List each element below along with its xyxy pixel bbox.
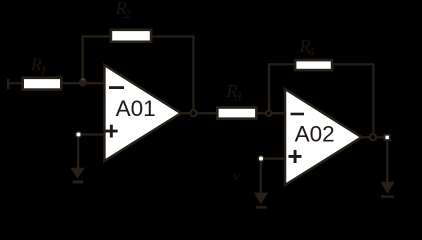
svg-text:2: 2 xyxy=(124,6,131,21)
node C (A01 + input, open white circle) xyxy=(76,132,82,138)
wire A02 output node to output terminal xyxy=(377,136,385,138)
output node of A01 (open circle) xyxy=(190,110,196,116)
wire A02 + node to A02 non-inverting input xyxy=(263,158,285,160)
node A (junction dot) xyxy=(79,78,87,86)
resistor R1 xyxy=(23,78,62,90)
wire R3 to node B xyxy=(256,112,266,114)
node D (A02 + input, open white circle) xyxy=(258,156,264,162)
label R1 xyxy=(30,55,47,78)
wire A02 + node down to ground G2 xyxy=(260,161,262,194)
ground G1 xyxy=(70,168,84,184)
ground G3 xyxy=(380,182,394,198)
output terminal (square) xyxy=(385,135,390,140)
svg-text:4: 4 xyxy=(308,44,315,59)
wire down to A02 output node xyxy=(372,63,374,134)
wire R1 to node A and on to A01 inverting input xyxy=(63,82,104,84)
wire node A up (feedback riser) xyxy=(81,37,83,84)
label R2 xyxy=(115,0,131,21)
wire node B to A02 inverting input xyxy=(272,112,285,114)
op-amp A01 non-inverting pin mark xyxy=(105,125,118,138)
svg-text:A02: A02 xyxy=(295,122,335,147)
svg-text:1: 1 xyxy=(40,63,47,78)
wire A01 + node to A01 non-inverting input xyxy=(81,133,104,135)
wire R4 to top-right corner 2 xyxy=(332,63,373,65)
resistor R2 xyxy=(111,30,151,42)
svg-text:v: v xyxy=(233,169,240,185)
resistor R3 xyxy=(217,108,256,119)
ground G2 xyxy=(254,193,268,209)
op-amp A01 body xyxy=(104,65,181,161)
label R4 xyxy=(299,36,316,59)
node B (open junction circle) xyxy=(266,111,271,116)
wire A01 + node down to ground G1 xyxy=(77,137,79,169)
wire node B up (feedback riser 2) xyxy=(268,64,270,110)
svg-text:3: 3 xyxy=(234,88,242,103)
svg-text:A01: A01 xyxy=(116,96,156,121)
resistor R4 xyxy=(295,60,332,70)
op-amp A02 inverting pin mark xyxy=(291,113,305,116)
wire A01 output node to R3 xyxy=(197,112,217,114)
wire R2 to top-right corner xyxy=(151,35,193,37)
wire top-left corner to R2 xyxy=(82,35,111,37)
output node of A02 (open circle) xyxy=(370,134,376,140)
op-amp A02 non-inverting pin mark xyxy=(289,150,302,163)
wire input terminal to R1 xyxy=(8,82,23,84)
op-amp A01 inverting pin mark xyxy=(109,86,124,89)
op-amp A02 body xyxy=(285,89,362,185)
wire A02 apex to output node xyxy=(360,136,370,138)
wire output terminal down to ground G3 xyxy=(386,141,388,183)
input terminal xyxy=(7,79,9,89)
wire down to A01 output node xyxy=(192,35,194,110)
label R3 xyxy=(226,81,243,104)
wire A01 apex to output node xyxy=(179,112,190,114)
wire top corner 2 to R4 xyxy=(268,63,295,65)
